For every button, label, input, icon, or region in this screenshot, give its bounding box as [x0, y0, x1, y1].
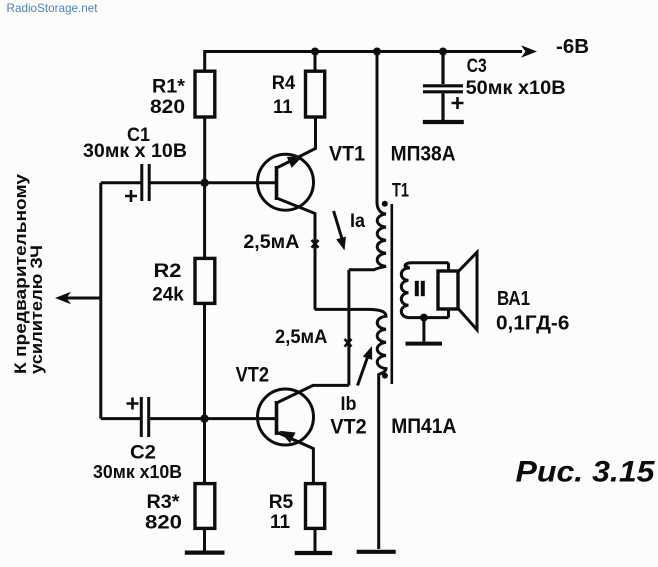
- ground C3: [423, 120, 464, 124]
- svg-text:30мк x 10В: 30мк x 10В: [83, 141, 187, 162]
- node B junction C2/R2/R3/VT2 base: [200, 414, 208, 422]
- resistor R3: [195, 484, 215, 529]
- label МП38А: [391, 143, 456, 166]
- svg-text:30мк x10В: 30мк x10В: [93, 462, 182, 482]
- wire R2 bottom to node B: [203, 305, 206, 419]
- label 820: [150, 96, 185, 118]
- transformer T1 primary upper winding: [349, 52, 386, 270]
- caption Рис. 3.15: [516, 456, 656, 489]
- wire input arrow line: [66, 297, 101, 300]
- svg-text:МП38А: МП38А: [391, 143, 456, 166]
- svg-text:Ib: Ib: [341, 394, 357, 415]
- ground R5: [295, 551, 333, 555]
- wire top supply rail: [205, 52, 522, 71]
- svg-text:11: 11: [270, 511, 290, 533]
- svg-text:50мк x10В: 50мк x10В: [466, 78, 566, 99]
- label T1: [392, 181, 409, 202]
- svg-text:24k: 24k: [152, 284, 184, 306]
- svg-text:VT1: VT1: [329, 143, 365, 166]
- label 0,1ГД-6: [496, 311, 569, 334]
- wire R1 bottom to node A: [203, 118, 206, 183]
- svg-text:RadioStorage.net: RadioStorage.net: [7, 1, 99, 15]
- label 11: [273, 96, 293, 118]
- label К предварительному: [11, 173, 30, 374]
- svg-text:2,5мА: 2,5мА: [243, 231, 299, 253]
- label R2: [154, 260, 182, 282]
- wire left vertical input: [99, 183, 102, 419]
- svg-text:11: 11: [273, 96, 293, 118]
- arrow Ia: [334, 211, 346, 251]
- plus C2: [127, 398, 139, 410]
- svg-text:820: 820: [145, 512, 182, 534]
- plus C1: [125, 190, 137, 202]
- transistor VT2: [205, 385, 349, 482]
- ground secondary: [406, 318, 443, 344]
- transformer T1 primary lower winding: [369, 309, 386, 549]
- x mark lower: [345, 339, 352, 347]
- arrow to preamp: [55, 292, 71, 304]
- speaker BA1: [438, 252, 477, 330]
- transformer core: [390, 204, 393, 384]
- svg-text:МП41А: МП41А: [391, 415, 456, 438]
- label 11 lower: [270, 511, 290, 533]
- arrow -6V supply: [521, 45, 537, 57]
- svg-text:-6В: -6В: [556, 36, 589, 58]
- svg-text:VT2: VT2: [330, 416, 366, 439]
- svg-text:C2: C2: [130, 442, 156, 464]
- label R4: [272, 72, 295, 94]
- label R1*: [152, 76, 185, 98]
- svg-text:R1*: R1*: [152, 76, 185, 98]
- transistor VT1: [205, 118, 316, 310]
- svg-text:T1: T1: [392, 181, 409, 202]
- label VT2 upper: [236, 364, 269, 387]
- plus C3: [452, 97, 464, 109]
- label ВА1: [497, 287, 530, 310]
- capacitor C3: [423, 52, 463, 121]
- node rail/T1: [373, 48, 381, 56]
- resistor R4: [306, 71, 325, 117]
- label VT2 lower: [330, 416, 366, 439]
- label Ib: [341, 394, 357, 415]
- label 30мк x10В: [93, 462, 182, 482]
- resistor R1: [195, 71, 215, 117]
- label 24k: [152, 284, 184, 306]
- svg-text:820: 820: [150, 96, 185, 118]
- resistor R5: [306, 484, 325, 529]
- label II winding: [415, 281, 425, 296]
- svg-text:VT2: VT2: [236, 364, 269, 387]
- svg-text:R3*: R3*: [147, 491, 180, 513]
- label 2,5мА lower: [275, 327, 328, 348]
- wire R3 bottom: [203, 530, 206, 551]
- label C2: [130, 442, 156, 464]
- svg-text:ВА1: ВА1: [497, 287, 530, 310]
- label VT1: [329, 143, 365, 166]
- node A junction C1/R1/R2/VT1 base: [200, 179, 208, 187]
- svg-text:Ia: Ia: [350, 211, 365, 232]
- label C3: [467, 55, 487, 77]
- wire VT1 collector to lower winding: [315, 308, 369, 311]
- svg-text:R2: R2: [154, 260, 182, 282]
- label Ia: [350, 211, 365, 232]
- node rail/R4: [311, 48, 319, 56]
- ground R3: [185, 550, 225, 554]
- x mark upper: [312, 240, 319, 248]
- logo RadioStorage.net: [7, 1, 99, 15]
- svg-text:усилителю ЗЧ: усилителю ЗЧ: [27, 245, 46, 374]
- wire center link vertical: [347, 270, 350, 386]
- arrow Ib: [358, 346, 373, 386]
- label усилителю ЗЧ: [27, 245, 46, 374]
- wire R5 bottom: [314, 530, 317, 552]
- node secondary/ground: [420, 314, 428, 322]
- label C1: [127, 124, 150, 146]
- svg-text:C3: C3: [467, 55, 487, 77]
- ground transformer return: [357, 550, 396, 554]
- label R5: [269, 491, 294, 513]
- label -6В: [556, 36, 589, 58]
- transformer T1 secondary winding: [401, 263, 448, 318]
- svg-text:2,5мА: 2,5мА: [275, 327, 328, 348]
- label 30мк x 10В: [83, 141, 187, 162]
- dot T1 bottom polarity: [382, 373, 388, 379]
- resistor R2: [195, 258, 215, 303]
- svg-text:Рис. 3.15: Рис. 3.15: [516, 456, 656, 489]
- svg-text:R5: R5: [269, 491, 294, 513]
- capacitor C1: [101, 164, 205, 201]
- wire R3 top: [203, 419, 206, 482]
- node rail/C3: [439, 48, 447, 56]
- label 50мк x10В: [466, 78, 566, 99]
- wire R2 top: [203, 183, 206, 257]
- label 2,5мА upper: [243, 231, 299, 253]
- dot T1 top polarity: [382, 201, 388, 207]
- label МП41А: [391, 415, 456, 438]
- capacitor C2: [101, 397, 205, 437]
- label R3*: [147, 491, 180, 513]
- svg-text:R4: R4: [272, 72, 295, 94]
- svg-text:0,1ГД-6: 0,1ГД-6: [496, 311, 569, 334]
- label 820 lower: [145, 512, 182, 534]
- wire R4 top: [314, 52, 317, 71]
